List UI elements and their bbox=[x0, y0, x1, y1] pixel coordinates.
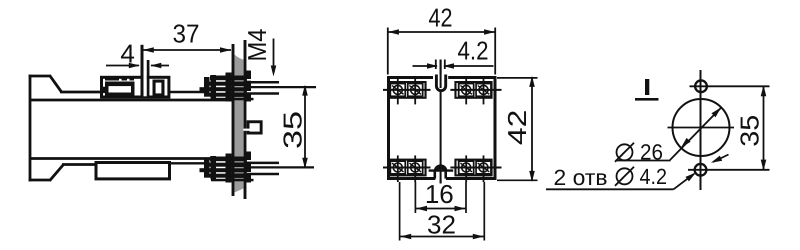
svg-text:16: 16 bbox=[425, 179, 454, 209]
svg-text:4.2: 4.2 bbox=[640, 164, 668, 189]
svg-text:35: 35 bbox=[278, 111, 308, 149]
svg-text:2 отв: 2 отв bbox=[554, 165, 608, 190]
svg-text:42: 42 bbox=[429, 2, 453, 32]
svg-text:4.2: 4.2 bbox=[458, 35, 489, 65]
svg-text:32: 32 bbox=[427, 210, 456, 240]
svg-text:M4: M4 bbox=[242, 29, 272, 62]
svg-text:35: 35 bbox=[735, 115, 765, 147]
svg-text:37: 37 bbox=[173, 19, 200, 49]
svg-text:42: 42 bbox=[502, 110, 532, 145]
svg-text:4: 4 bbox=[120, 39, 134, 69]
